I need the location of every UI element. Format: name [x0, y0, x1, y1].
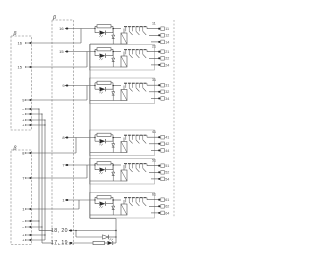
node diode top K6: [112, 199, 114, 201]
contact drops K3: [125, 83, 127, 88]
wire LED rejoin K2: [106, 55, 113, 57]
svg-text:14: 14: [165, 40, 169, 44]
node diode row at bus: [115, 236, 116, 237]
resistor R5: [97, 162, 111, 165]
wire diode row left: [76, 236, 102, 238]
module boundary right (dashed): [173, 20, 175, 218]
terminal 64: [158, 212, 160, 214]
resistor R1: [97, 25, 111, 28]
contact drops K1: [125, 27, 127, 32]
wire pin 9 B1 to relay input: [68, 85, 95, 87]
svg-text:16: 16: [59, 26, 64, 31]
svg-text:+: +: [22, 123, 25, 128]
wire pin − B3 to bus: [26, 220, 39, 222]
terminal 42: [158, 143, 160, 145]
wire contact row 1 K5: [146, 164, 148, 166]
terminal 14: [158, 41, 160, 43]
terminal 61: [158, 199, 160, 201]
wire resistor out K1: [111, 25, 113, 27]
svg-text:32: 32: [165, 90, 169, 94]
wire coil top K6: [123, 200, 125, 204]
svg-text:15: 15: [59, 49, 64, 54]
contact levers K2: [129, 54, 132, 58]
wire LED rejoin K6: [106, 203, 113, 205]
flyback diode V2b: [112, 52, 114, 59]
terminal 12: [158, 34, 160, 36]
wire coil top K3: [123, 86, 125, 90]
svg-text:64: 64: [165, 211, 169, 215]
connector B2 (left upper, dashed box): [11, 36, 32, 130]
terminal 54: [158, 178, 160, 180]
wire coil top K2: [123, 52, 125, 57]
wire input split down K5: [94, 165, 96, 170]
wire resistor out K5: [111, 162, 113, 164]
wire pin 1 B1 to relay input: [68, 199, 95, 201]
wire pin 7 B3 horizontal: [26, 177, 87, 179]
svg-text:−: −: [22, 225, 25, 230]
wire input split up K1: [94, 26, 96, 28]
svg-text:21: 21: [165, 50, 169, 54]
terminal 22: [158, 57, 160, 59]
LED V6a: [100, 202, 106, 206]
svg-text:17, 19: 17, 19: [51, 240, 68, 246]
relay coil K6: [121, 204, 127, 215]
mechanical link K4: [124, 134, 147, 136]
contact drops K2: [125, 50, 127, 55]
wire coil top K1: [123, 29, 125, 34]
svg-text:51: 51: [152, 159, 156, 163]
svg-text:11: 11: [152, 22, 156, 26]
node 18 20 at return bus: [115, 230, 116, 231]
bus minus A (vertical): [38, 109, 40, 231]
coil return bus (vertical): [89, 44, 91, 219]
wire contact row 2 K5: [149, 171, 159, 173]
svg-text:+: +: [22, 238, 25, 243]
wire contact row 2 K2: [149, 57, 159, 59]
node input K3: [94, 85, 95, 86]
wire pin 15 B2 horizontal: [26, 66, 87, 68]
flyback diode V1b: [112, 29, 114, 36]
svg-text:44: 44: [165, 149, 169, 153]
contact drops K4: [125, 135, 127, 140]
wire coil return K4: [90, 152, 121, 154]
terminal 11: [158, 28, 160, 30]
LED V1a: [100, 31, 106, 35]
wire pin 8 B3 vertical join: [75, 138, 77, 154]
wire supply row 17 19 left: [42, 242, 53, 244]
junction bus plus top: [44, 119, 45, 120]
terminal 62: [158, 205, 160, 207]
node input K2: [94, 51, 95, 52]
svg-text:41: 41: [152, 130, 156, 134]
wire pin 16 B2 vertical join: [80, 29, 82, 44]
wire pin 1 B3 horizontal: [26, 208, 79, 210]
relay coil K1: [121, 33, 127, 44]
wire supply row 18 20 left: [39, 230, 53, 232]
svg-text:61: 61: [165, 198, 169, 202]
wire pin 9 B2 vertical join: [86, 86, 88, 101]
wire contact row 3 K3: [151, 97, 159, 99]
contact levers K6: [129, 202, 132, 206]
relay channel outline K3: [90, 78, 155, 104]
wire resistor out K4: [111, 134, 113, 136]
wire pin 15 B1 to relay input: [68, 51, 95, 53]
svg-text:42: 42: [165, 142, 169, 146]
wire to coil K2: [113, 51, 121, 53]
svg-text:−: −: [22, 219, 25, 224]
wire pin 16 B1 to relay input: [68, 28, 95, 30]
wire pin + B2 to bus: [26, 124, 45, 126]
wire input split up K4: [94, 135, 96, 138]
wire LED V8 to bus: [113, 242, 116, 244]
LED V3a: [100, 87, 106, 91]
mechanical link K1: [124, 26, 147, 28]
resistor R7: [93, 241, 105, 244]
relay coil K4: [121, 142, 127, 153]
wire pin 8 B3 horizontal: [26, 152, 76, 154]
wire contact row 2 K1: [149, 34, 159, 36]
node input K6: [94, 199, 95, 200]
terminal 51: [158, 165, 160, 167]
wire coil return K6: [90, 214, 121, 216]
contact levers K1: [129, 31, 132, 35]
svg-text:8: 8: [22, 151, 25, 156]
terminal 34: [158, 97, 160, 99]
wire input split down K1: [94, 29, 96, 33]
wire LED rejoin K5: [106, 169, 113, 171]
wire input split up K5: [94, 163, 96, 165]
junction bus plus lower: [44, 234, 45, 235]
junction bus minus B top: [41, 113, 42, 114]
svg-text:54: 54: [165, 177, 169, 181]
wire pin 16 B2 horizontal: [26, 42, 81, 44]
wire coil return K5: [90, 180, 121, 182]
relay channel outline K5: [90, 159, 155, 185]
wire input split up K3: [94, 83, 96, 86]
svg-text:31: 31: [152, 78, 156, 82]
wire to coil K3: [113, 85, 121, 87]
contact levers K4: [129, 140, 132, 144]
wire pin − B3 to bus: [26, 226, 42, 228]
contact drops K6: [125, 198, 127, 203]
wire pin + B3 to bus: [26, 234, 45, 236]
wire pin 8 B1 to relay input: [68, 137, 95, 139]
wire input split down K2: [94, 52, 96, 56]
flyback diode V4b: [112, 138, 114, 144]
connector B1 (middle, dashed box): [52, 20, 74, 245]
svg-text:24: 24: [165, 63, 169, 67]
pin 18 20 of B1: [69, 229, 71, 231]
wire contact row 1 K3: [146, 83, 148, 85]
relay channel outline K2: [90, 45, 155, 71]
LED V5a: [100, 168, 106, 172]
junction bus minus B lower: [41, 226, 42, 227]
bus minus B (vertical): [41, 114, 43, 243]
wire coil top K4: [123, 138, 125, 142]
terminal 52: [158, 171, 160, 173]
contact drops K5: [125, 164, 127, 169]
wire pin + B3 to bus: [26, 239, 45, 241]
svg-text:1: 1: [22, 207, 25, 212]
wire contact row 3 K5: [151, 178, 159, 180]
svg-text:β: β: [13, 146, 17, 152]
wire pin 15 B2 vertical join: [86, 52, 88, 68]
wire coil return K1: [90, 43, 121, 45]
wire contact row 2 K4: [149, 143, 159, 145]
terminal 21: [158, 51, 160, 53]
wire coil return K2: [90, 66, 121, 68]
svg-text:12: 12: [165, 34, 169, 38]
resistor R6: [97, 196, 111, 199]
svg-text:7: 7: [22, 176, 25, 181]
node diode top K4: [112, 137, 114, 139]
flyback diode V6b: [112, 200, 114, 206]
svg-text:9: 9: [22, 98, 25, 103]
resistor R4: [97, 133, 111, 136]
relay coil K2: [121, 56, 127, 67]
wire pin 9 B2 horizontal: [26, 99, 87, 101]
wire input split down K6: [94, 200, 96, 204]
bus plus (vertical): [44, 120, 46, 240]
terminal 44: [158, 149, 160, 151]
relay coil K3: [121, 90, 127, 101]
svg-text:β: β: [52, 15, 56, 21]
wire input split down K3: [94, 86, 96, 90]
pin 17 19 of B1: [69, 242, 71, 244]
svg-text:31: 31: [165, 84, 169, 88]
wire 17 19 to resistor: [72, 242, 93, 244]
wire to coil K5: [113, 164, 121, 166]
LED V8 (supply indicator): [108, 241, 113, 245]
node diode top K3: [112, 85, 114, 87]
terminal 32: [158, 91, 160, 93]
node diode top K5: [112, 164, 114, 166]
wire resistor out K3: [111, 82, 113, 84]
wire contact row 2 K3: [149, 91, 159, 93]
svg-text:16: 16: [18, 41, 23, 46]
mechanical link K6: [124, 197, 147, 199]
node diode top K1: [112, 28, 114, 30]
node input K5: [94, 164, 95, 165]
wire pin 1 B3 vertical join: [78, 200, 80, 209]
svg-text:51: 51: [165, 164, 169, 168]
svg-text:11: 11: [165, 27, 169, 31]
wire contact row 1 K1: [146, 27, 148, 29]
svg-text:22: 22: [165, 57, 169, 61]
wire to coil K6: [113, 199, 121, 201]
flyback diode V5b: [112, 165, 114, 172]
svg-text:52: 52: [165, 171, 169, 175]
coil return bus drop: [115, 219, 117, 244]
mechanical link K2: [124, 49, 147, 51]
svg-text:−: −: [22, 112, 25, 117]
wire coil return K3: [90, 100, 121, 102]
contact levers K3: [129, 88, 132, 92]
svg-text:34: 34: [165, 97, 169, 101]
svg-text:β: β: [13, 31, 17, 37]
wire supply row 18 20 right: [72, 230, 116, 232]
resistor R2: [97, 48, 111, 51]
mechanical link K3: [124, 82, 147, 84]
wire coil top K5: [123, 165, 125, 170]
wire resistor R7 out: [105, 242, 108, 244]
terminal 24: [158, 64, 160, 66]
node input K1: [94, 28, 95, 29]
svg-text:21: 21: [152, 45, 156, 49]
wire contact row 3 K2: [151, 64, 159, 66]
node diode top K2: [112, 51, 114, 53]
contact levers K5: [129, 168, 132, 172]
resistor R3: [97, 81, 111, 84]
svg-text:61: 61: [152, 193, 156, 197]
wire contact row 2 K6: [149, 205, 159, 207]
wire LED rejoin K3: [106, 88, 113, 90]
wire resistor out K6: [111, 196, 113, 198]
wire contact row 1 K2: [146, 50, 148, 52]
coil return bus elbow: [90, 218, 116, 220]
wire pin + B2 to bus: [26, 119, 45, 121]
wire diode row right: [109, 236, 116, 238]
svg-text:15: 15: [18, 65, 23, 70]
terminal 41: [158, 136, 160, 138]
relay channel outline K4: [90, 130, 155, 156]
LED V2a: [100, 54, 106, 58]
relay coil K5: [121, 170, 127, 181]
node diode branch: [75, 230, 76, 231]
svg-text:41: 41: [165, 136, 169, 140]
diode V7 (protection): [103, 235, 109, 239]
wire LED rejoin K1: [106, 32, 113, 34]
wire input split down K4: [94, 138, 96, 142]
wire to coil K4: [113, 137, 121, 139]
wire pin 7 B1 to relay input: [68, 164, 95, 166]
wire contact row 3 K6: [151, 212, 159, 214]
wire pin 7 B3 vertical join: [86, 165, 88, 178]
wire contact row 3 K4: [151, 149, 159, 151]
wire contact row 1 K6: [146, 198, 148, 200]
wire diode branch vertical: [75, 231, 77, 238]
node input K4: [94, 137, 95, 138]
LED V4a: [100, 139, 106, 143]
wire input split up K6: [94, 197, 96, 200]
flyback diode V3b: [112, 86, 114, 92]
connector B3 (left lower, dashed box): [11, 150, 32, 245]
wire pin − B2 to bus: [26, 108, 39, 110]
wire to coil K1: [113, 28, 121, 30]
wire input split up K2: [94, 49, 96, 51]
mechanical link K5: [124, 163, 147, 165]
junction bus minus A top: [38, 108, 39, 109]
wire contact row 1 K4: [146, 135, 148, 137]
wire resistor out K2: [111, 48, 113, 50]
wire pin − B2 to bus: [26, 113, 42, 115]
terminal 31: [158, 84, 160, 86]
svg-text:18, 20: 18, 20: [51, 228, 68, 234]
wire LED rejoin K4: [106, 140, 113, 142]
wire contact row 3 K1: [151, 41, 159, 43]
relay channel outline K6: [90, 193, 155, 219]
junction bus minus A lower: [38, 220, 39, 221]
junction bus plus upper: [44, 124, 45, 125]
svg-text:62: 62: [165, 205, 169, 209]
